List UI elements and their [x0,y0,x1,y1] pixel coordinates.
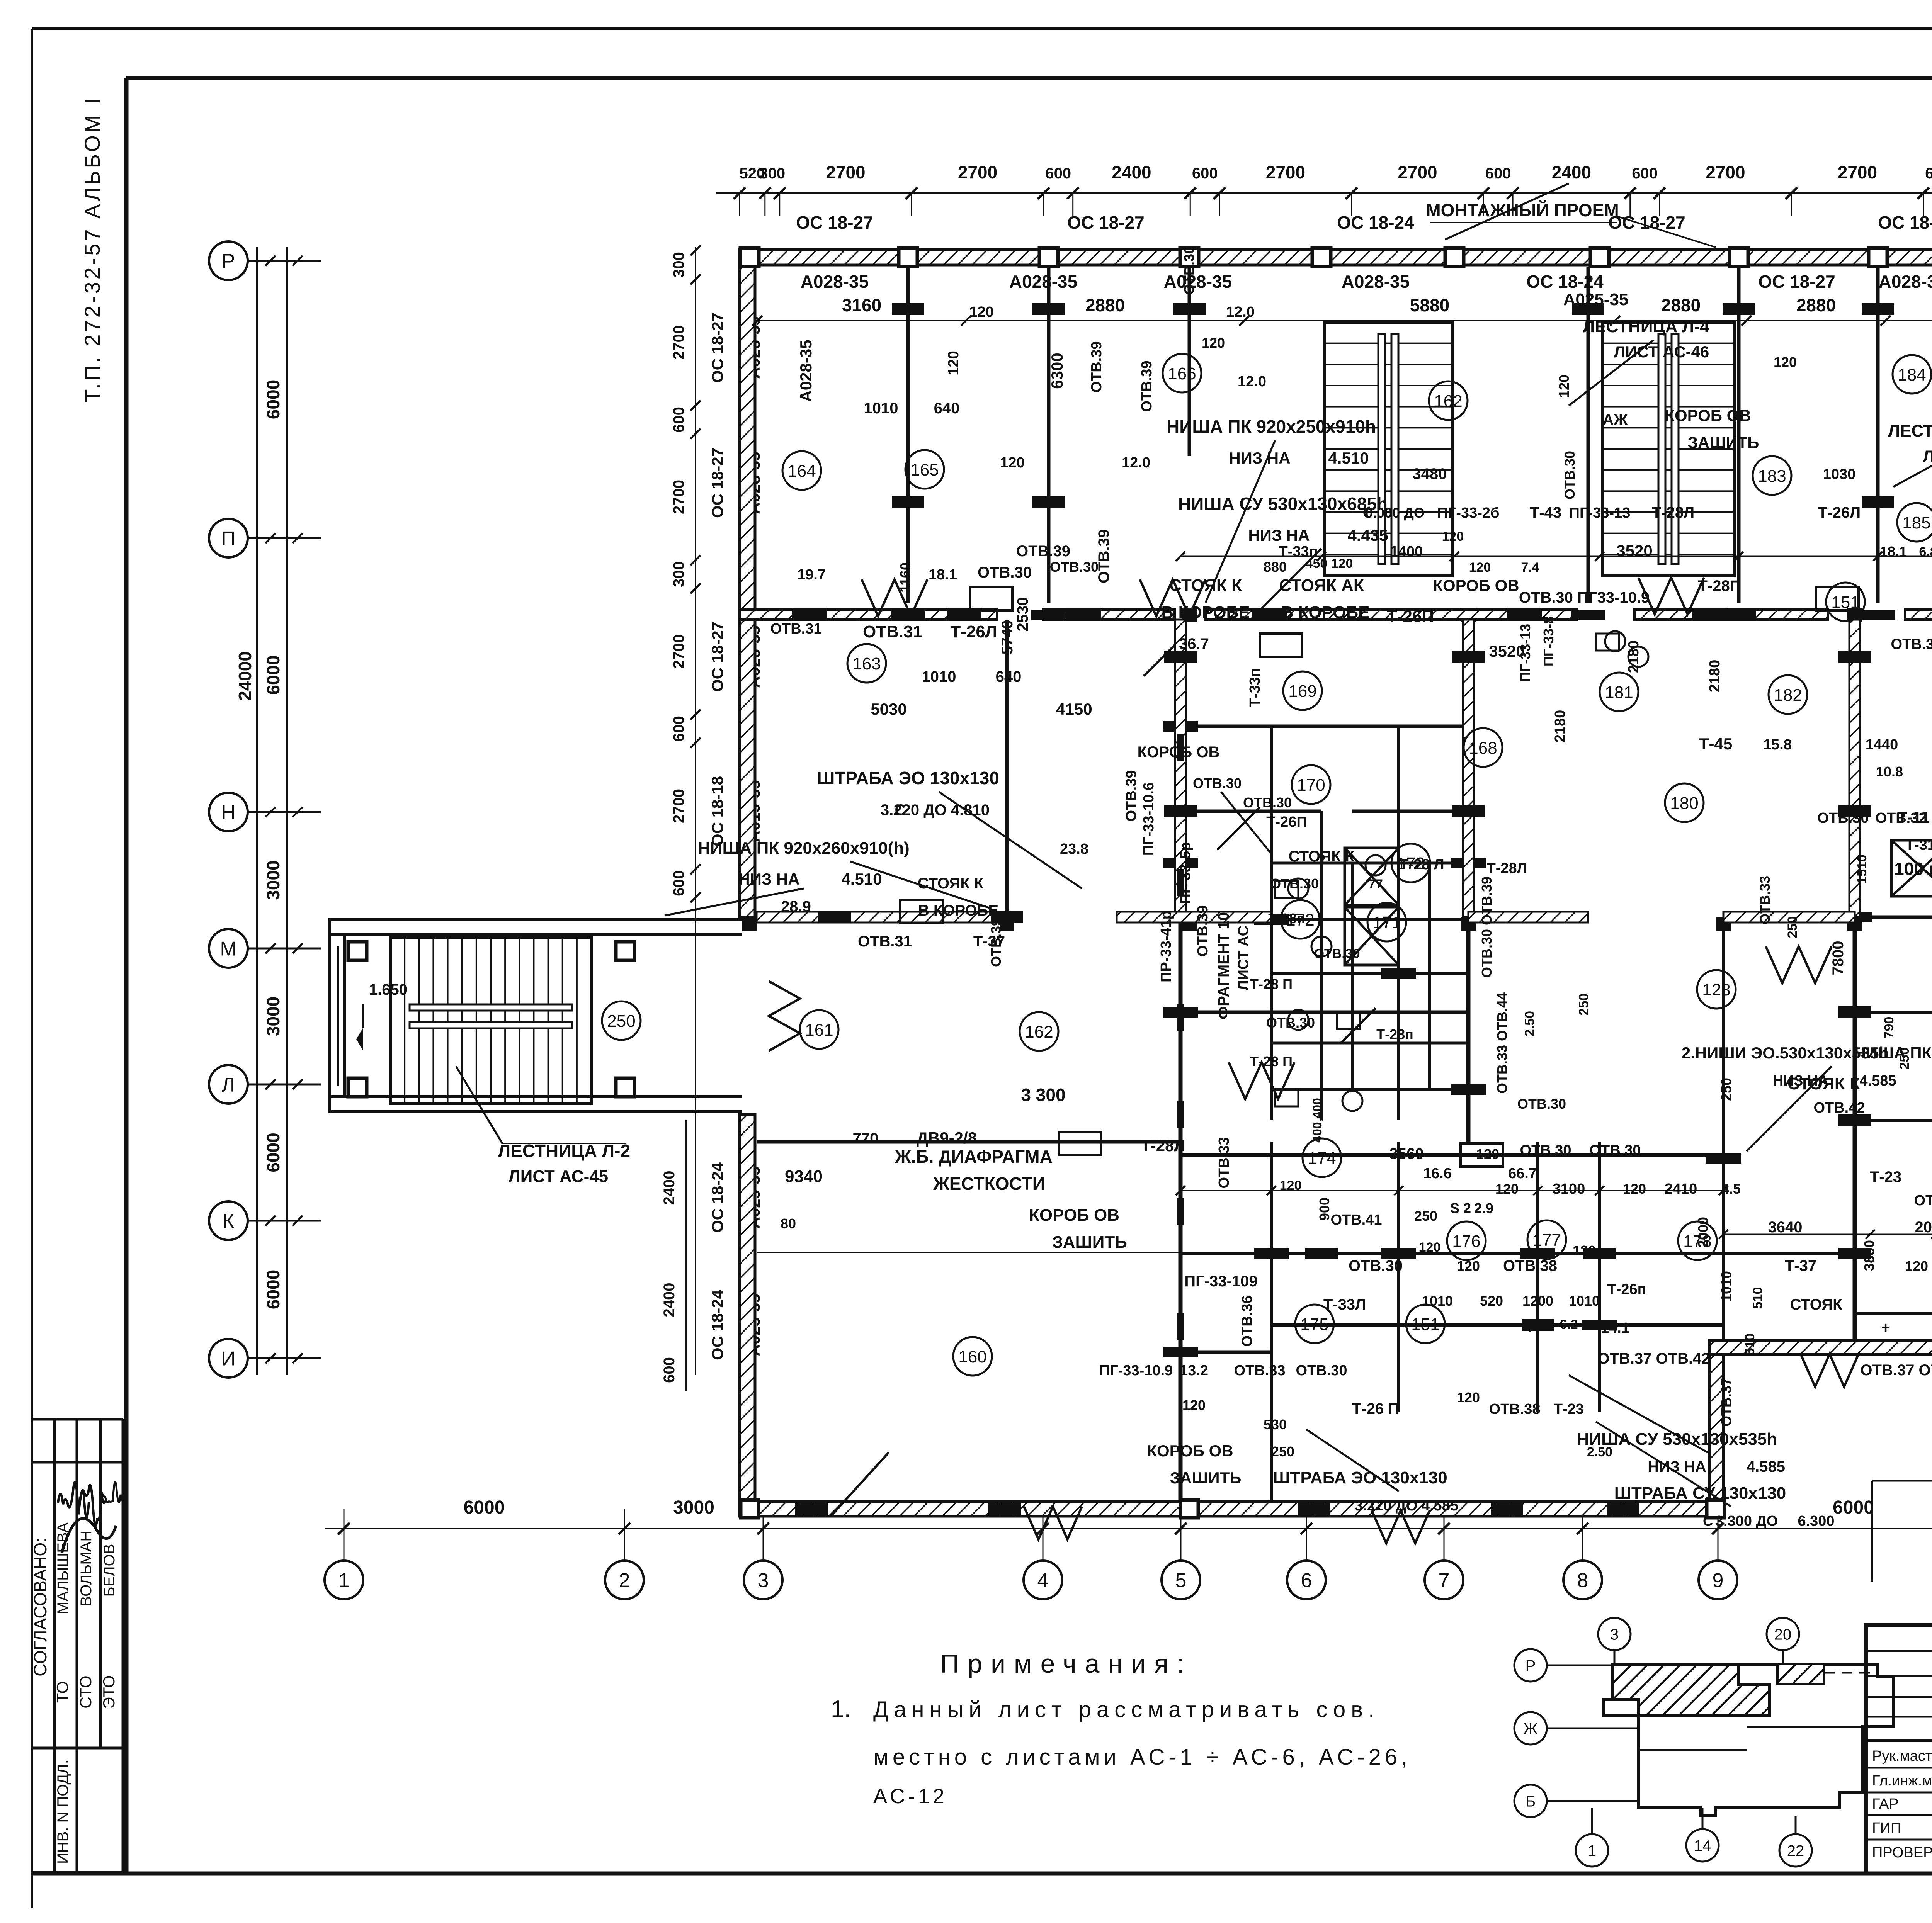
svg-text:ОТВ.33: ОТВ.33 [1234,1362,1285,1379]
svg-text:ОТВ.30: ОТВ.30 [1891,636,1932,652]
svg-text:НИЗ НА: НИЗ НА [1229,449,1290,467]
svg-text:ОС 18-24: ОС 18-24 [708,1289,726,1360]
svg-text:А028-35: А028-35 [1342,272,1410,292]
svg-text:181: 181 [1605,683,1633,702]
svg-text:2700: 2700 [1266,162,1305,182]
svg-text:Ж: Ж [1524,1720,1538,1737]
svg-text:120: 120 [1556,375,1572,398]
room 185 [1897,503,1932,542]
svg-text:А028-35: А028-35 [1879,272,1932,292]
svg-text:ВОЛЬМАН: ВОЛЬМАН [78,1531,95,1607]
extension door zigzag [769,981,800,1051]
svg-text:Т-28П: Т-28П [1698,578,1741,595]
svg-text:66.7: 66.7 [1508,1165,1537,1182]
svg-text:ЛЕСТНИЦА Л-5: ЛЕСТНИЦА Л-5 [1888,421,1932,440]
svg-text:2880: 2880 [1661,295,1701,315]
corridor black blobs [792,608,827,620]
svg-text:4: 4 [1037,1570,1049,1592]
room 250 [602,1001,641,1040]
svg-text:ОТВ.38: ОТВ.38 [1503,1257,1557,1274]
svg-text:1010: 1010 [864,400,898,417]
svg-text:НИША ПК 920х260х910(h): НИША ПК 920х260х910(h) [1854,1044,1932,1062]
top inner dims row [757,320,1932,321]
extra blobs [1164,651,1197,663]
svg-text:176: 176 [1452,1232,1480,1251]
svg-text:Т-28 Л: Т-28 Л [1400,856,1444,873]
svg-text:20: 20 [1774,1626,1792,1643]
svg-text:600: 600 [1192,165,1218,182]
svg-text:4150: 4150 [1056,700,1092,718]
svg-text:АЖ: АЖ [1602,411,1628,428]
room 162 [1429,381,1468,420]
svg-text:2180: 2180 [1626,640,1642,673]
svg-text:166: 166 [1168,364,1196,383]
svg-text:Рук.маст: Рук.маст [1872,1748,1932,1764]
svg-text:4.510: 4.510 [841,870,882,888]
axis 1 [325,1561,363,1599]
svg-text:КОРОБ ОВ: КОРОБ ОВ [1029,1206,1119,1225]
svg-text:1010: 1010 [1422,1293,1453,1309]
svg-text:2400: 2400 [661,1171,678,1205]
axis 3 [744,1561,782,1599]
svg-text:250: 250 [1785,916,1800,938]
lower cluster walls [1180,1153,1399,1157]
svg-text:ОТВ.39: ОТВ.39 [1195,905,1211,956]
svg-text:5030: 5030 [871,700,906,718]
svg-text:ПГ-33-5р: ПГ-33-5р [1177,842,1194,904]
svg-text:А028-35: А028-35 [801,272,869,292]
svg-text:А028-35: А028-35 [1164,272,1232,292]
svg-text:6.8: 6.8 [1919,545,1932,559]
svg-text:6.2: 6.2 [1560,1317,1578,1332]
svg-text:ОТВ.30: ОТВ.30 [1243,795,1292,810]
svg-text:ПГ-33-2б: ПГ-33-2б [1437,505,1499,521]
svg-text:2530: 2530 [1014,597,1031,632]
svg-text:S 2: S 2 [1450,1200,1471,1216]
svg-text:МОНТАЖНЫЙ ПРОЕМ: МОНТАЖНЫЙ ПРОЕМ [1426,200,1619,220]
svg-text:530: 530 [1264,1417,1287,1432]
axis 8 [1563,1561,1602,1599]
svg-text:ОТВ.39: ОТВ.39 [1914,1193,1932,1209]
svg-text:14.1: 14.1 [1601,1320,1629,1336]
svg-text:П: П [221,528,235,550]
exterior wall bottom left [740,1502,1723,1516]
svg-text:770: 770 [853,1130,879,1147]
svg-text:Т-33п: Т-33п [1247,668,1263,707]
svg-text:ОС 18-27: ОС 18-27 [1758,272,1835,292]
svg-text:6: 6 [1301,1570,1312,1592]
key axis 1 [1576,1834,1608,1867]
svg-text:местно с листами АС-1 ÷ АС-6,: местно с листами АС-1 ÷ АС-6, АС-26, [873,1745,1411,1770]
svg-text:2880: 2880 [1796,295,1836,315]
svg-text:ОТВ.30: ОТВ.30 [978,564,1032,581]
svg-text:6.300: 6.300 [1798,1513,1834,1529]
svg-text:0.000 ДО: 0.000 ДО [1365,505,1425,521]
svg-text:ОТВ.39: ОТВ.39 [1088,341,1105,392]
svg-text:ЛЕСТНИЦА Л-4: ЛЕСТНИЦА Л-4 [1583,317,1709,336]
hoist T-11 [1891,840,1932,896]
room 169 [1283,671,1322,710]
svg-text:ПГ-33-10.9: ПГ-33-10.9 [1099,1362,1173,1379]
svg-text:2700: 2700 [670,634,687,669]
svg-text:19.7: 19.7 [797,567,826,583]
svg-text:СОГЛАСОВАНО:: СОГЛАСОВАНО: [30,1537,50,1677]
svg-text:100 кг: 100 кг [1894,859,1932,879]
svg-text:1160: 1160 [897,562,913,593]
svg-text:7: 7 [1439,1570,1450,1592]
svg-text:10.8: 10.8 [1876,764,1903,780]
svg-text:ОС 18-27: ОС 18-27 [796,212,873,233]
room 172 [1391,844,1430,882]
svg-text:2.50: 2.50 [1522,1011,1537,1036]
svg-text:Т-26Л: Т-26Л [950,622,997,641]
svg-text:ОС 18-27: ОС 18-27 [708,622,726,692]
svg-text:Примечания:: Примечания: [940,1649,1193,1678]
svg-text:1440: 1440 [1866,737,1898,753]
svg-text:ГИП: ГИП [1872,1820,1901,1836]
exterior wall left upper [740,250,755,917]
svg-text:2700: 2700 [826,162,865,182]
svg-text:С: С [1703,1513,1713,1529]
svg-text:600: 600 [1045,165,1071,182]
svg-text:1.: 1. [831,1696,851,1723]
svg-text:450 120: 450 120 [1306,556,1353,571]
svg-text:3.300 ДО: 3.300 ДО [1715,1513,1778,1529]
svg-text:ОС 18-27: ОС 18-27 [1878,212,1932,233]
svg-text:Р: Р [222,250,235,273]
key axis Ж [1514,1712,1547,1745]
dim line rows inside plan [1723,1234,1932,1235]
svg-text:ОТВ.30: ОТВ.30 [1314,946,1360,961]
svg-text:ОТВ.37 ОТВ.42: ОТВ.37 ОТВ.42 [1597,1350,1710,1367]
svg-text:12.0: 12.0 [1226,304,1255,320]
svg-text:ОТВ.30: ОТВ.30 [1562,451,1578,499]
mid walls vertical [1005,620,1009,917]
svg-text:Н: Н [221,802,236,824]
svg-text:ОТВ.38: ОТВ.38 [1489,1401,1540,1417]
svg-text:ОТВ.42: ОТВ.42 [1813,1100,1865,1116]
svg-text:1200: 1200 [1522,1293,1553,1309]
outer page border [32,27,1932,30]
svg-text:5880: 5880 [1410,295,1449,315]
svg-text:168: 168 [1469,739,1497,758]
svg-text:120: 120 [946,351,962,375]
top band partitions [906,267,910,603]
svg-text:520: 520 [1480,1293,1503,1309]
svg-text:2.50: 2.50 [1587,1445,1612,1459]
svg-text:80: 80 [781,1216,796,1232]
svg-text:162: 162 [1025,1023,1053,1041]
svg-text:ОТВ.30: ОТВ.30 [1181,246,1197,295]
svg-text:3: 3 [1610,1626,1619,1643]
svg-text:5: 5 [1175,1570,1187,1592]
svg-text:ОТВ.30: ОТВ.30 [1817,810,1869,826]
svg-text:Т-28п: Т-28п [1376,1026,1413,1042]
svg-text:НИЗ НА: НИЗ НА [1773,1073,1828,1089]
svg-text:КОРОБ ОВ: КОРОБ ОВ [1138,744,1220,761]
svg-text:Т-33Л: Т-33Л [1323,1296,1366,1313]
svg-text:600: 600 [661,1357,678,1383]
svg-text:3000: 3000 [263,997,283,1036]
svg-text:НИША ПК 920х250х910h: НИША ПК 920х250х910h [1167,416,1376,437]
key axis Б [1514,1785,1547,1817]
wet core left wall [1270,726,1273,1120]
svg-text:Т-31: Т-31 [1905,837,1932,853]
room 166 [1163,354,1201,392]
svg-text:2700: 2700 [670,480,687,514]
svg-text:ОС 18-27: ОС 18-27 [708,313,726,383]
svg-text:КОРОБ ОВ: КОРОБ ОВ [1147,1442,1233,1460]
svg-text:ФРАГМЕНТ 10: ФРАГМЕНТ 10 [1215,912,1232,1019]
svg-text:3100: 3100 [1553,1181,1585,1197]
svg-text:18.1: 18.1 [929,567,957,583]
svg-text:120: 120 [1280,1178,1302,1193]
svg-text:АС-12: АС-12 [873,1785,947,1808]
svg-text:8: 8 [1577,1570,1588,1592]
room 151 [1406,1305,1445,1343]
exterior step wall [1709,1340,1723,1516]
svg-text:ПГ-33-10.6: ПГ-33-10.6 [1141,782,1157,856]
room 168 [1464,728,1502,767]
svg-text:ПГ-33-13: ПГ-33-13 [1569,505,1631,521]
svg-text:ОТВ.36: ОТВ.36 [1239,1295,1255,1347]
svg-text:ОС 18-24: ОС 18-24 [708,1162,726,1233]
extension inner dim arrow [337,946,339,1086]
svg-text:1400: 1400 [1390,544,1423,560]
svg-text:ОТВ.39: ОТВ.39 [1139,360,1155,412]
svg-text:ОТВ.39: ОТВ.39 [988,918,1004,967]
svg-text:790: 790 [1882,1017,1896,1039]
svg-text:161: 161 [805,1021,833,1040]
svg-text:9: 9 [1713,1570,1724,1592]
svg-text:2410: 2410 [1665,1181,1697,1197]
svg-text:4.5: 4.5 [1721,1181,1741,1197]
svg-text:16.6: 16.6 [1423,1165,1452,1182]
svg-text:Т-28Л: Т-28Л [1141,1136,1185,1155]
svg-text:123: 123 [1702,980,1730,999]
svg-text:120: 120 [1442,529,1464,544]
svg-text:3: 3 [758,1570,769,1592]
svg-text:ОТВ.31: ОТВ.31 [770,621,821,637]
svg-text:ЛИСТ АС: ЛИСТ АС [1235,926,1252,990]
svg-text:КОРОБ ОВ: КОРОБ ОВ [1433,576,1519,595]
small fixtures (sanitary) [1288,878,1308,899]
room 177 [1527,1220,1566,1259]
exterior wall top [740,250,1932,265]
svg-text:3 300: 3 300 [1021,1085,1065,1105]
top dimension chain [716,192,1932,194]
axis 6 [1287,1561,1326,1599]
stair extension bottom wall [328,1095,742,1098]
svg-text:177: 177 [1532,1231,1561,1250]
svg-text:120: 120 [1495,1181,1519,1197]
axis И [209,1339,248,1378]
svg-text:165: 165 [910,460,939,479]
key plan outline [1604,1664,1893,1816]
axis 7 [1425,1561,1463,1599]
svg-text:510: 510 [1750,1287,1765,1309]
inner frame [126,76,1932,80]
stair extension left wall [328,920,331,1112]
svg-text:ОС 18-27: ОС 18-27 [1067,212,1144,233]
svg-text:ОС 18-27: ОС 18-27 [708,448,726,518]
svg-text:ОТВ.37: ОТВ.37 [1718,1378,1734,1427]
svg-text:175: 175 [1300,1315,1328,1334]
room 184 [1893,355,1931,394]
axis Л [209,1065,248,1104]
hatched mid walls [1175,620,1186,917]
svg-text:ЗАШИТЬ: ЗАШИТЬ [1052,1233,1127,1252]
svg-text:184: 184 [1898,365,1926,384]
svg-text:2000: 2000 [1915,1219,1932,1236]
svg-text:2.9: 2.9 [1474,1200,1493,1216]
svg-text:Т-23: Т-23 [1554,1401,1584,1417]
svg-text:Т.П. 272-32-57 АЛЬБОМ I: Т.П. 272-32-57 АЛЬБОМ I [80,96,104,402]
svg-text:3.220 ДО 4.810: 3.220 ДО 4.810 [881,802,990,819]
columns corridor [742,917,757,931]
svg-text:ЗАШИТЬ: ЗАШИТЬ [1170,1469,1242,1487]
svg-text:Т-26П: Т-26П [1266,814,1307,830]
svg-text:ЛИСТ АС-45: ЛИСТ АС-45 [509,1167,608,1186]
axis 4 [1024,1561,1062,1599]
svg-text:3160: 3160 [842,295,881,315]
svg-text:6000: 6000 [1833,1497,1874,1518]
svg-text:6000: 6000 [263,1133,283,1172]
svg-text:ПГ-33-8: ПГ-33-8 [1541,616,1556,666]
svg-text:ОТВ.39: ОТВ.39 [1016,543,1070,560]
room 164 [782,451,821,490]
small niche boxes on walls [970,587,1012,610]
svg-text:120: 120 [969,304,993,320]
svg-text:250: 250 [1897,1048,1912,1070]
svg-text:77: 77 [1368,877,1383,892]
svg-text:ОС 18-24: ОС 18-24 [1526,272,1604,292]
svg-text:ОС 18-24: ОС 18-24 [1337,212,1414,233]
axis Н [209,793,248,831]
stair extension top wall [328,918,742,921]
svg-text:3.220 ДО 4.585: 3.220 ДО 4.585 [1355,1498,1458,1514]
svg-text:170: 170 [1297,776,1325,795]
svg-text:2700: 2700 [1398,162,1437,182]
svg-text:3520: 3520 [1616,542,1652,560]
exterior wall bottom right [1709,1340,1932,1354]
svg-text:120: 120 [1905,1258,1928,1274]
svg-text:4.510: 4.510 [1328,449,1369,467]
svg-text:ОТВ.30 ПГ33-10.9: ОТВ.30 ПГ33-10.9 [1519,589,1650,606]
key axis 14 [1686,1829,1719,1862]
svg-text:2400: 2400 [1112,162,1151,182]
svg-text:ОТВ.30: ОТВ.30 [1296,1362,1347,1379]
svg-text:12.0: 12.0 [1238,374,1266,390]
svg-text:13.2: 13.2 [1180,1362,1208,1379]
svg-text:СТО: СТО [77,1675,95,1708]
svg-text:Т-23: Т-23 [1870,1169,1901,1186]
room 123 [1697,970,1736,1009]
room 151 [1826,583,1865,621]
svg-text:Т-28Л: Т-28Л [1487,860,1527,877]
svg-text:1010: 1010 [922,668,956,685]
room 182 [1769,675,1807,714]
svg-text:ШТРАБА ЭО 130х130: ШТРАБА ЭО 130х130 [817,768,999,788]
svg-text:А028-35: А028-35 [797,340,815,402]
svg-text:НИЗ НА: НИЗ НА [1248,526,1310,544]
svg-text:ОТВ.30: ОТВ.30 [1193,775,1242,791]
svg-text:ОТВ.39: ОТВ.39 [1095,529,1112,583]
svg-text:ПРОВЕРИЛА: ПРОВЕРИЛА [1872,1845,1932,1861]
approval sidebar table [32,1418,123,1421]
svg-text:ДВ9-2/8: ДВ9-2/8 [917,1129,977,1147]
svg-text:4.585: 4.585 [1859,1073,1896,1089]
svg-text:1010: 1010 [1718,1271,1734,1302]
svg-text:600: 600 [1925,165,1932,182]
svg-text:1510: 1510 [1855,854,1869,884]
stair L-2 [390,937,591,1103]
svg-text:КОРОБ ОВ: КОРОБ ОВ [1665,406,1751,425]
svg-text:ПР-33-41р: ПР-33-41р [1158,911,1174,982]
svg-text:ОТВ.39: ОТВ.39 [1123,770,1139,821]
room 170 [1292,765,1330,804]
svg-text:В КОРОБЕ: В КОРОБЕ [918,902,998,919]
svg-text:600: 600 [670,870,687,896]
svg-text:2000: 2000 [1695,1217,1711,1248]
svg-text:2180: 2180 [1552,710,1568,743]
svg-text:1.650: 1.650 [369,981,408,998]
door leaf strokes [831,1452,889,1516]
internal black blobs [1163,721,1198,732]
svg-text:ТО: ТО [53,1681,71,1703]
svg-text:2700: 2700 [670,325,687,360]
svg-text:2700: 2700 [1838,162,1877,182]
svg-text:300: 300 [670,252,687,278]
room 160 [953,1337,992,1376]
svg-text:ОТВ.41: ОТВ.41 [1330,1212,1382,1228]
svg-text:6000: 6000 [263,655,283,695]
svg-text:9340: 9340 [785,1167,823,1186]
stair L-5 [1603,322,1734,576]
svg-text:ЛИСТ АС-47: ЛИСТ АС-47 [1923,447,1932,465]
svg-text:ОТВ.37 ОТВ.42: ОТВ.37 ОТВ.42 [1860,1362,1932,1379]
svg-text:ОТВ.33 ОТВ.44: ОТВ.33 ОТВ.44 [1494,992,1510,1094]
columns bottom walls [741,1500,759,1518]
svg-text:Р: Р [1526,1657,1536,1674]
svg-text:120: 120 [1000,455,1024,471]
svg-text:510: 510 [1743,1334,1757,1356]
svg-text:6300: 6300 [1048,353,1066,389]
svg-text:ОТВ.31: ОТВ.31 [858,933,912,950]
key axis 3 [1598,1618,1631,1650]
svg-text:БЕЛОВ: БЕЛОВ [101,1544,118,1597]
svg-text:СТОЯК К: СТОЯК К [918,875,984,892]
svg-text:120: 120 [1573,1243,1596,1259]
svg-text:120: 120 [1419,1240,1441,1255]
svg-text:ОТВ.30: ОТВ.30 [1589,1142,1641,1159]
svg-text:Т-26 П: Т-26 П [1352,1400,1399,1417]
svg-text:1010: 1010 [1569,1293,1600,1309]
key axis 20 [1767,1618,1799,1650]
svg-text:300: 300 [670,561,687,587]
axis 9 [1699,1561,1737,1599]
svg-text:6000: 6000 [263,380,283,419]
svg-text:600: 600 [1632,165,1658,182]
columns stair extension [348,942,367,960]
svg-text:ШТРАБА СУ 130х130: ШТРАБА СУ 130х130 [1614,1484,1786,1503]
svg-text:14: 14 [1694,1837,1711,1854]
svg-text:К: К [223,1210,234,1233]
svg-text:600: 600 [670,716,687,742]
svg-text:ОС 18-18: ОС 18-18 [708,776,726,846]
svg-text:250: 250 [1414,1208,1437,1224]
svg-text:151: 151 [1411,1315,1439,1334]
